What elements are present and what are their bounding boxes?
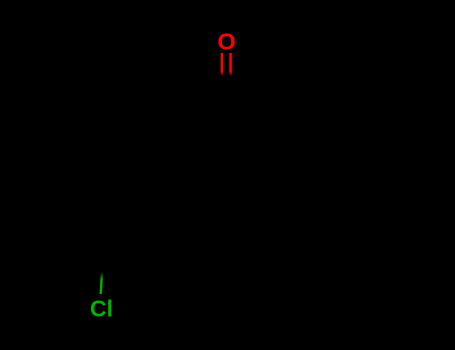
double bond C=O (red halves) (221, 53, 224, 76)
bond C-Cl (green half) (101, 272, 102, 294)
carbon skeleton (black bonds, invisible on black background) (102, 96, 340, 274)
svg-text:Cl: Cl (90, 295, 113, 321)
svg-text:O: O (217, 28, 235, 54)
